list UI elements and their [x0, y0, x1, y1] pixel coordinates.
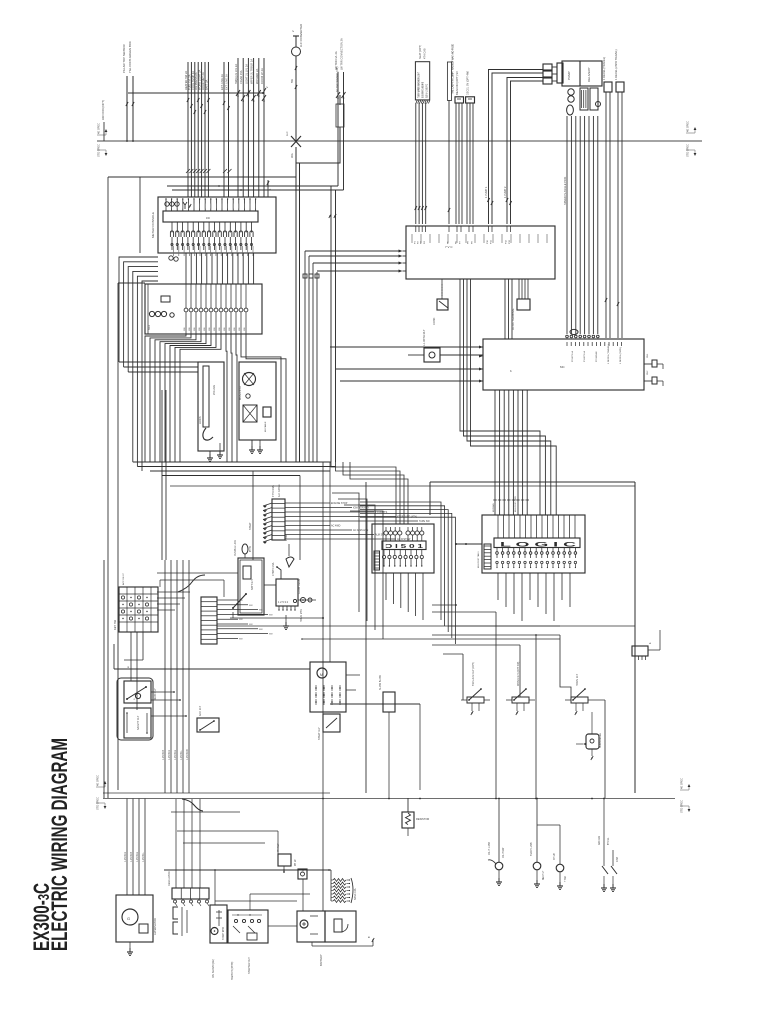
wire riser battery area [329, 462, 331, 662]
terminal AC/DC [511, 279, 530, 330]
svg-text:SW(A) 2L LVL 2A: SW(A) 2L LVL 2A [234, 64, 238, 84]
horn box [198, 362, 224, 451]
svg-text:1.25 W-G: 1.25 W-G [174, 750, 177, 760]
wire group left nested routing [119, 257, 198, 471]
svg-text:STD SPEC: STD SPEC [686, 144, 690, 157]
svg-text:WIPER MTR: WIPER MTR [239, 386, 242, 400]
wires to regulator [176, 799, 200, 888]
relay feed stairs [432, 604, 635, 798]
svg-text:4B CABLE: 4B CABLE [264, 421, 267, 432]
wire pair pump-1 [485, 70, 543, 225]
svg-text:ATM: ATM [616, 857, 619, 862]
svg-text:1.25 W-L: 1.25 W-L [180, 750, 183, 760]
svg-text:ACC ON ST: ACC ON ST [122, 572, 125, 585]
bus line 4 [162, 475, 300, 477]
svg-text:4TH COML: 4TH COML [272, 484, 275, 497]
alternator [116, 895, 157, 955]
wire fuse F1 to rail [290, 56, 297, 141]
svg-text:VOLUME: VOLUME [213, 384, 216, 395]
svg-text:TEMP 1.25B: TEMP 1.25B [530, 842, 533, 856]
wire bundle switch panel down to bus [145, 334, 286, 462]
label air-con [101, 100, 105, 141]
spec arrows bottom-left [96, 775, 107, 810]
regulator [168, 871, 209, 906]
MAIN controller box [483, 339, 644, 390]
console lower pin circles [169, 256, 178, 261]
wire bundle B1 to meter console [184, 62, 210, 197]
svg-text:1.25 W-R: 1.25 W-R [168, 750, 171, 760]
svg-text:1 DECEL (TRAVEL): 1 DECEL (TRAVEL) [607, 344, 610, 364]
wire bundle monitor to logic (L-bends) [460, 279, 556, 515]
svg-text:METER CONSOLE: METER CONSOLE [151, 212, 155, 238]
wire risers between panels [360, 502, 455, 644]
wire into logic left [455, 543, 482, 568]
svg-text:4TH CAB: 4TH CAB [424, 48, 427, 59]
wire B4 bends to vertical runs [167, 185, 344, 462]
glow resistor bank [331, 870, 357, 903]
wire bottom rail 2 [103, 798, 675, 800]
option label box (wire list) [415, 45, 429, 103]
svg-text:START RLY: START RLY [318, 727, 321, 740]
svg-text:1.25 W-L: 1.25 W-L [142, 852, 145, 862]
switch panel lamps [148, 296, 174, 330]
lamp box [295, 859, 307, 911]
switch panel enclosure [145, 284, 262, 334]
svg-text:THE CAB 4TH COMPT RADIO(4 WAY): THE CAB 4TH COMPT RADIO(4 WAY) NO FUSE [452, 44, 455, 94]
svg-text:DECEL SV (OPT 4W): DECEL SV (OPT 4W) [467, 71, 470, 95]
ground horn [207, 443, 223, 461]
svg-text:CIGAR 15A: CIGAR 15A [239, 70, 243, 84]
wire bundle B3 switched feeds [234, 58, 266, 197]
long line y639 [301, 638, 560, 640]
svg-text:BANK 10A: BANK 10A [354, 888, 357, 900]
connector slashes below rail [186, 169, 232, 173]
svg-text:PUMP: PUMP [567, 71, 571, 80]
svg-text:STD SPEC: STD SPEC [97, 144, 101, 157]
wire branches to engine bay [171, 812, 278, 854]
svg-text:P1 WITH A: P1 WITH A [583, 351, 586, 362]
MAIN right stub 1 [644, 353, 663, 369]
svg-text:LIGHT 2L LVL 2A: LIGHT 2L LVL 2A [244, 64, 248, 84]
horn relay small box [576, 712, 602, 760]
long line y618 [230, 617, 324, 619]
svg-text:4E SPEC: 4E SPEC [97, 123, 101, 134]
title line 2 ELECTRIC WIRING DIAGRAM [47, 738, 72, 951]
sensor box pigtails [567, 88, 601, 115]
svg-text:1.25 W-G: 1.25 W-G [136, 852, 139, 862]
svg-text:HOUR MET 2A: HOUR MET 2A [201, 72, 205, 90]
glow plug relay unit [310, 662, 360, 712]
svg-text:AC ATM SW: AC ATM SW [397, 538, 411, 541]
MAIN right stub 2 [644, 370, 663, 386]
svg-text:TURN WIPER WASHER LIGHT: TURN WIPER WASHER LIGHT [417, 72, 421, 98]
svg-text:ROOM LP 2A: ROOM LP 2A [260, 68, 264, 84]
wires logic panel bottom exits [498, 573, 570, 621]
svg-text:EXT. LINE 2A: EXT. LINE 2A [225, 74, 229, 90]
battery feed wire [312, 799, 374, 947]
svg-text:SPEED IN ANGLE PICK: SPEED IN ANGLE PICK [563, 176, 567, 205]
terminal strip cab [263, 484, 430, 544]
svg-text:BEACON (OPT) SV: BEACON (OPT) SV [456, 71, 459, 95]
battery box [297, 911, 356, 966]
wire pair pump-2 [504, 78, 543, 225]
bus line 1 [133, 461, 331, 463]
svg-text:4 COMPTS: 4 COMPTS [375, 511, 388, 514]
svg-text:P2 SENSE: P2 SENSE [596, 351, 598, 362]
wire long riser A [249, 471, 253, 560]
switch panel switch row [184, 284, 248, 334]
logic panel [482, 515, 585, 573]
rail crossover squiggle [182, 799, 203, 811]
svg-text:T SW: T SW [565, 875, 567, 882]
svg-text:7 V C: 7 V C [445, 245, 453, 249]
svg-text:RESISTOR: RESISTOR [416, 817, 429, 821]
bus line 3 [150, 470, 330, 472]
svg-text:1 DECEL (2SPD TRAVEL): 1 DECEL (2SPD TRAVEL) [614, 49, 618, 80]
terminal strip engine [201, 597, 273, 644]
meter console pin labels [166, 204, 256, 209]
svg-text:TRVL ALM RLY (OPT): TRVL ALM RLY (OPT) [472, 662, 475, 686]
regulator brackets [173, 907, 187, 936]
fuse panel [372, 524, 434, 573]
svg-text:M: M [320, 673, 323, 677]
acc relay [197, 705, 219, 732]
svg-text:30A: 30A [290, 153, 294, 158]
wires rail to alternator [124, 799, 145, 896]
wires into fuse panel top [331, 462, 408, 524]
svg-text:M: M [128, 666, 130, 668]
wire bundle left risers bottom [162, 560, 189, 793]
svg-text:REGULATOR: REGULATOR [168, 871, 171, 886]
svg-text:OT LB: OT LB [554, 853, 556, 860]
bus line 2 [137, 466, 335, 468]
svg-text:1 PUMP 1: 1 PUMP 1 [485, 186, 488, 198]
svg-text:PILLAR TOP SENSOR: PILLAR TOP SENSOR [122, 44, 126, 73]
ground wiper [249, 440, 263, 453]
relay bay junctions [151, 691, 187, 717]
svg-text:5W: 5W [290, 79, 294, 83]
wire keyswitch to TS2 [160, 580, 224, 597]
svg-text:KEYBOARD (4TH): KEYBOARD (4TH) [397, 516, 417, 519]
svg-text:SEAT (OPT): SEAT (OPT) [419, 45, 422, 59]
svg-text:SAFETY RLY: SAFETY RLY [137, 715, 140, 730]
svg-text:BATTERY: BATTERY [319, 954, 323, 966]
connector block below relays [632, 630, 660, 660]
connector C2 [466, 71, 475, 224]
svg-text:4B LOGIC TAB 1: 4B LOGIC TAB 1 [477, 551, 480, 568]
enclosure pump bay [170, 482, 635, 793]
svg-text:CN2: CN2 [647, 370, 649, 375]
wire main harness rail y=141 [97, 140, 702, 142]
wiper box [239, 362, 276, 440]
svg-text:4E SPEC: 4E SPEC [96, 775, 100, 786]
svg-text:4B LOGIC PWR: 4B LOGIC PWR [515, 496, 517, 512]
enclosure inner left [118, 177, 145, 790]
connector stack for pump lines [543, 63, 563, 84]
svg-text:4B MAIN: 4B MAIN [492, 503, 495, 512]
svg-text:WASHER 2A: WASHER 2A [255, 69, 259, 84]
connector C1 [455, 71, 464, 224]
svg-text:co: co [206, 216, 210, 220]
starter motor box [210, 905, 227, 943]
svg-text:GLOW RELAY: GLOW RELAY [298, 578, 301, 594]
svg-text:1 DECEL (2SPD): 1 DECEL (2SPD) [620, 347, 622, 364]
svg-text:BT LVL: BT LVL [608, 837, 610, 845]
svg-text:1 DECEL (TRAVEL): 1 DECEL (TRAVEL) [602, 57, 606, 80]
relay L.L with rly [408, 329, 483, 362]
junction dots bottom rail [322, 798, 605, 800]
svg-text:COOL TEMP 2A: COOL TEMP 2A [191, 71, 195, 90]
svg-text:IGNITION KEY: IGNITION KEY [353, 507, 369, 510]
wire bundle B2 [220, 62, 230, 197]
hook wire [276, 566, 281, 579]
oil pressure switch [488, 798, 505, 885]
svg-text:P SW: P SW [286, 534, 288, 541]
long line y626 [217, 625, 560, 627]
svg-text:Ɔ I 5 0 1: Ɔ I 5 0 1 [385, 544, 423, 550]
svg-text:1.25 W-B: 1.25 W-B [130, 852, 133, 862]
svg-text:L.L WITH RLY: L.L WITH RLY [422, 329, 426, 346]
meter console pilot circles [165, 202, 191, 209]
svg-text:CHNTN 15A: CHNTN 15A [272, 562, 275, 576]
svg-text:OIL PRESS 2A: OIL PRESS 2A [194, 72, 198, 90]
svg-text:HORN: HORN [198, 416, 202, 424]
svg-text:0.85 W-L 0.85 Y-G: 0.85 W-L 0.85 Y-G [425, 84, 429, 98]
svg-text:HORN RLY: HORN RLY [576, 673, 579, 686]
svg-text:BATT 2A: BATT 2A [204, 79, 208, 90]
rail junction dots left [126, 140, 134, 142]
svg-text:1.25 W-R: 1.25 W-R [124, 852, 127, 862]
air cleaner switches [598, 798, 619, 891]
svg-text:LW TRR LVL 2A: LW TRR LVL 2A [334, 51, 338, 70]
svg-text:1 PUMP 2: 1 PUMP 2 [504, 186, 507, 198]
svg-text:START MTR: START MTR [222, 927, 225, 940]
svg-text:1.25 W-B: 1.25 W-B [162, 750, 165, 760]
resistor R-glow lead label [335, 67, 340, 105]
svg-text:1 2 5 3 2: 1 2 5 3 2 [278, 600, 289, 604]
spec arrows bottom-right [680, 778, 691, 813]
svg-text:HOUR MTR: HOUR MTR [300, 609, 303, 622]
slow blow fuse box [379, 675, 395, 798]
svg-text:4E SPEC: 4E SPEC [686, 121, 690, 132]
meter cluster lamp loops [170, 222, 253, 256]
wire long riser B [300, 462, 323, 799]
svg-text:1.25 W-W: 1.25 W-W [186, 749, 189, 760]
svg-text:EXT. LINE 2A: EXT. LINE 2A [220, 74, 224, 90]
safety relay [124, 708, 151, 738]
wire bundle pump sensors to MAIN [563, 116, 599, 338]
wire y704 [330, 704, 420, 790]
resistor (wiper circuit) [402, 798, 429, 836]
svg-text:4E SPEC: 4E SPEC [680, 778, 684, 789]
wire bundle monitor to MAIN [505, 279, 512, 339]
svg-text:BZR: BZR [148, 325, 151, 330]
svg-text:STARTER RLY: STARTER RLY [248, 957, 251, 974]
svg-text:TAPE SW: TAPE SW [419, 520, 430, 523]
glow controller [272, 562, 301, 610]
svg-text:A-C: A-C [285, 131, 289, 136]
battery relay box [232, 540, 264, 618]
wire bottom rail 1 [103, 792, 330, 794]
wire resistor to junction [296, 127, 340, 163]
svg-text:DELIVERY: DELIVERY [587, 67, 591, 82]
svg-text:FUEL LVL 2A: FUEL LVL 2A [187, 74, 191, 90]
wire bundle B4 [334, 38, 346, 190]
relay bottom-2 [506, 661, 535, 715]
svg-text:PH LP: PH LP [295, 859, 297, 866]
relay bottom-1 [461, 662, 490, 715]
starter relay box [212, 910, 268, 980]
wire risers to monitor left [305, 251, 317, 462]
svg-text:CN1: CN1 [647, 353, 649, 358]
wire pillar sensor pair [122, 41, 134, 141]
nested corner routes left of fuse panel [332, 493, 383, 639]
wire tap y=93 [128, 86, 269, 94]
svg-text:KEY SW: KEY SW [113, 619, 117, 630]
relay bay enclosure [114, 644, 310, 740]
svg-text:AC 4WD: AC 4WD [331, 525, 341, 528]
wire starter bus [164, 869, 331, 926]
svg-text:WIPER RLY (OPT 4W): WIPER RLY (OPT 4W) [517, 661, 520, 686]
fuse F1 [292, 47, 301, 56]
ignition key switch table [113, 572, 158, 632]
wire fuse branch down [296, 147, 300, 462]
svg-text:HEATER SW 2A: HEATER SW 2A [184, 71, 188, 90]
hour meter pair [298, 598, 316, 623]
svg-text:PH RLY: PH RLY [277, 843, 280, 852]
title line 1 EX300-3C [29, 883, 54, 951]
relay bottom-3 [565, 673, 594, 715]
svg-text:OIL P.SW: OIL P.SW [502, 847, 505, 858]
coolant temp switch [530, 798, 567, 889]
MAIN top pin marks [567, 342, 622, 364]
enclosure fuse bay left [365, 482, 367, 793]
svg-text:45TN: 45TN [250, 546, 252, 552]
svg-text:OIL P 1.25B: OIL P 1.25B [488, 842, 491, 855]
console pin stub right [267, 180, 272, 197]
relay small (preheat) [277, 843, 291, 873]
svg-text:NEXT LT: NEXT LT [543, 870, 545, 880]
enclosure lower mid [162, 390, 166, 560]
svg-text:WIPER 2L TRBLR 2A: WIPER 2L TRBLR 2A [250, 59, 254, 84]
svg-text:SWITCH (4TH6): SWITCH (4TH6) [231, 962, 234, 981]
wires into MAIN left edge [330, 346, 483, 383]
svg-text:ALTERNATOR: ALTERNATOR [153, 918, 157, 935]
curved jumper wire [178, 575, 205, 592]
svg-text:G: G [127, 916, 130, 921]
connector strip (narrow) [447, 44, 454, 224]
svg-text:0.85 W-R 0.85 W-B: 0.85 W-R 0.85 W-B [421, 82, 425, 98]
svg-text:SLOW BLOW: SLOW BLOW [379, 675, 382, 690]
svg-text:P2 WITH A: P2 WITH A [571, 351, 574, 362]
keyswitch leads [157, 592, 190, 610]
wires fuse panel bottom [386, 573, 423, 620]
monitor controller box [406, 226, 555, 279]
noise condenser [433, 279, 448, 325]
spec arrows top-left [97, 123, 108, 157]
svg-text:ALM SW: ALM SW [375, 534, 385, 537]
svg-text:ENGINE STOP: ENGINE STOP [331, 502, 348, 505]
junction X at rail [285, 131, 301, 158]
connector decel-1 [602, 57, 612, 338]
svg-text:A-C CABLE: A-C CABLE [278, 484, 281, 497]
svg-text:STD SPEC: STD SPEC [680, 800, 684, 813]
meter cluster top pins [165, 198, 256, 211]
svg-text:WORK LIGHT 2A: WORK LIGHT 2A [198, 69, 202, 90]
meter cluster bar [163, 211, 258, 222]
wire bundle console to switch panel [186, 253, 254, 284]
meter console enclosure [151, 197, 276, 253]
wire bundle MAIN down to logic panel [492, 390, 529, 515]
svg-text:P/E SERVO (4E): P/E SERVO (4E) [212, 959, 215, 978]
horn trumpet symbol [286, 534, 294, 567]
wire y872 connects [283, 869, 304, 871]
svg-text:BATT RLY: BATT RLY [251, 579, 254, 590]
svg-text:MAIN RLY: MAIN RLY [154, 688, 157, 700]
svg-text:YGL CONS GREEN BOX: YGL CONS GREEN BOX [128, 41, 132, 73]
svg-text:ACC RLY: ACC RLY [199, 705, 202, 716]
fuse F1 top lead with terminal [291, 24, 303, 47]
main relay [124, 681, 157, 703]
sensor box PUMP/DELIVERY [562, 61, 602, 86]
starter relay [318, 714, 340, 740]
svg-text:ELECTRIC WIRING DIAGRAM: ELECTRIC WIRING DIAGRAM [47, 738, 72, 951]
wires into monitor left edge [303, 250, 406, 279]
wires option box to monitor [415, 103, 427, 224]
svg-text:STD SPEC: STD SPEC [96, 797, 100, 810]
monitor top pin labels [412, 226, 547, 249]
enclosure outer left [104, 177, 296, 798]
spec arrows top-right [686, 121, 697, 157]
svg-text:FUSIBLE LINK: FUSIBLE LINK [234, 540, 237, 556]
svg-text:LW TRR CONNECTION 2A: LW TRR CONNECTION 2A [340, 38, 344, 70]
svg-text:COND: COND [433, 317, 436, 325]
svg-text:A-C CONVERTER: A-C CONVERTER [299, 24, 303, 47]
svg-text:START: START [249, 522, 252, 530]
wires keyswitch to relays [124, 632, 143, 710]
svg-text:AIR CLN: AIR CLN [598, 836, 601, 845]
fuse link oval [242, 544, 252, 558]
svg-text:HORN DECEL: HORN DECEL [600, 732, 602, 748]
svg-text:AIR CON (OPT): AIR CON (OPT) [101, 100, 105, 120]
glow wiring [157, 573, 289, 629]
connector decel-2 [614, 49, 624, 338]
resistor R-glow [336, 104, 344, 127]
svg-text:L O G I C: L O G I C [500, 542, 577, 549]
